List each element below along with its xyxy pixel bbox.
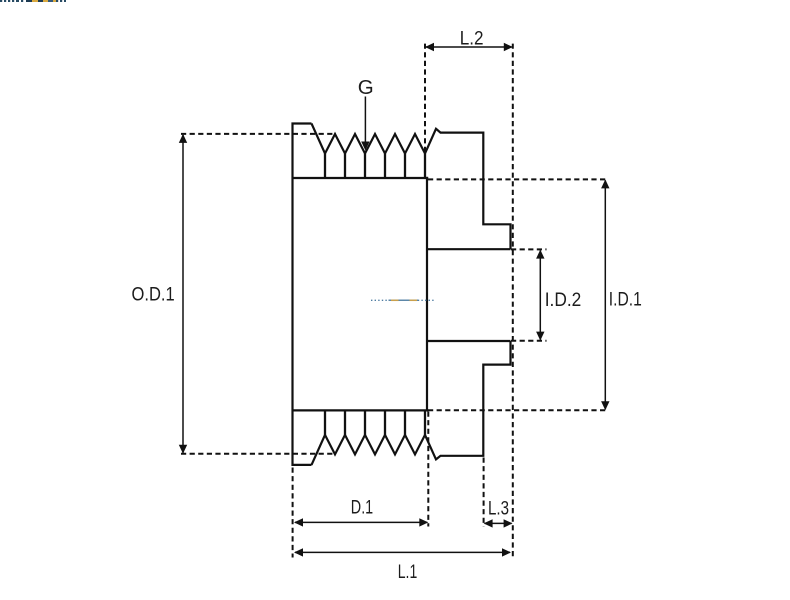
svg-text:I.D.1: I.D.1: [609, 289, 642, 311]
dimension L.2: [425, 28, 513, 52]
dimension L.1: [294, 548, 511, 583]
svg-text:D.1: D.1: [351, 497, 373, 519]
dimension D.1: [294, 497, 428, 527]
bore I.D.2 bottom line: [427, 340, 511, 342]
bottom root line: [293, 409, 429, 411]
pulley left cap: [293, 124, 312, 465]
extension dashed lines: [181, 44, 608, 558]
svg-text:G: G: [358, 76, 374, 99]
svg-text:L.1: L.1: [398, 561, 418, 583]
top root line: [293, 177, 429, 179]
svg-text:I.D.2: I.D.2: [545, 289, 582, 311]
top groove profile: [312, 124, 511, 250]
top groove depth lines: [325, 154, 425, 179]
svg-text:L.2: L.2: [460, 28, 484, 50]
logo strip (cropped) top-left: [0, 0, 66, 2]
label G with leader arrow: [358, 76, 374, 151]
bore I.D.2 top line: [427, 248, 511, 250]
dimension L.3: [484, 498, 513, 528]
svg-text:L.3: L.3: [488, 498, 509, 520]
bottom groove profile: [312, 341, 511, 465]
right face vertical: [426, 177, 428, 412]
dimension O.D.1: [132, 134, 188, 454]
dimension I.D.1: [601, 179, 642, 410]
dimension I.D.2: [536, 250, 581, 341]
centerline: [371, 299, 435, 301]
bottom groove depth lines: [325, 410, 425, 435]
svg-text:O.D.1: O.D.1: [132, 283, 175, 305]
